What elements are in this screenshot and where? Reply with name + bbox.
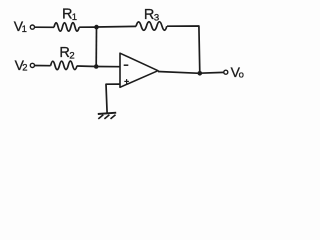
op-amp U1	[120, 53, 158, 87]
node B junction dot (summing node, bottom)	[94, 64, 99, 69]
wire R2 to node B	[77, 65, 96, 68]
input terminal V1	[30, 25, 34, 29]
wire node B to op-amp inverting input	[96, 66, 120, 68]
label R3	[144, 7, 159, 24]
wire vertical link node A to node B	[95, 27, 97, 66]
wire R1 to node A	[79, 26, 96, 28]
label V1	[14, 18, 27, 35]
svg-text:2: 2	[22, 63, 27, 74]
wire V2 terminal to R2	[35, 65, 51, 67]
op-amp U1 minus sign (inverting input)	[124, 64, 129, 66]
svg-text:3: 3	[154, 12, 159, 23]
resistor R2	[51, 61, 77, 70]
wire R3 to right corner and down to output node	[167, 26, 200, 73]
input terminal V2	[30, 63, 34, 67]
resistor R1	[54, 23, 79, 32]
label R2	[59, 45, 74, 62]
svg-text:1: 1	[22, 24, 27, 35]
wire V1 terminal to R1	[35, 26, 54, 28]
wire op-amp output to output node	[158, 72, 200, 74]
output terminal Vo	[224, 70, 228, 74]
label R1	[62, 6, 77, 23]
ground	[98, 113, 116, 119]
wire node A to R3	[97, 25, 137, 28]
label Vo	[231, 64, 244, 81]
svg-text:2: 2	[69, 51, 74, 62]
node A junction dot (summing node, top)	[94, 25, 99, 30]
resistor R3	[136, 22, 167, 31]
svg-text:R: R	[59, 45, 69, 61]
svg-text:1: 1	[72, 12, 77, 23]
label V2	[15, 57, 28, 74]
wire op-amp non-inverting input to ground	[106, 84, 120, 113]
svg-text:o: o	[239, 70, 244, 81]
wire output node to Vo terminal	[200, 71, 224, 74]
output node junction dot	[198, 71, 203, 76]
svg-text:R: R	[144, 7, 154, 23]
op-amp U1 plus sign (non-inverting input)	[124, 79, 129, 84]
